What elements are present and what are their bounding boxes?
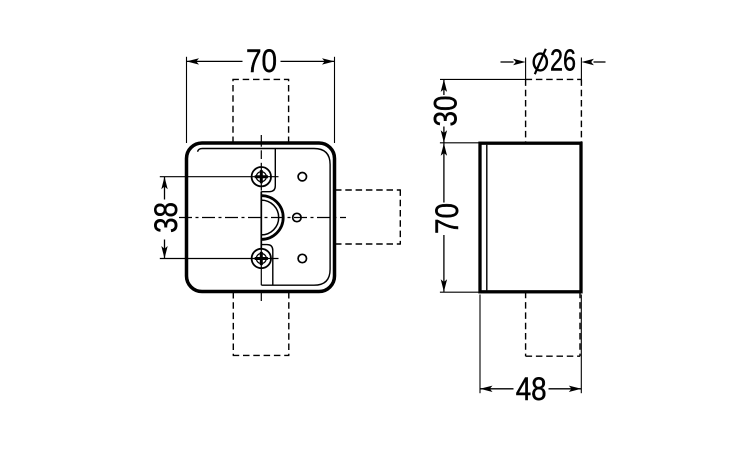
inner cover edge line (front view) <box>198 149 331 286</box>
dimension 30: top arrowhead <box>441 79 447 92</box>
dimension phi26: left leader and arrowhead <box>501 61 514 63</box>
dimension 70 side: top arrowhead <box>441 143 447 156</box>
small hole lower right <box>298 254 306 262</box>
dimension 48: extension lines <box>479 295 481 394</box>
dimension 70 side: extension lines <box>440 142 479 144</box>
dimension 38: bottom arrowhead <box>161 246 167 259</box>
hidden tube above (side view) <box>526 79 582 143</box>
dimension 30: bottom arrowhead <box>441 130 447 143</box>
D-notch outer arc <box>261 196 283 240</box>
screw upper: outer circle <box>252 167 271 186</box>
screw upper: phillips cross <box>255 170 268 183</box>
screw lower: vertical crosshair <box>260 245 262 273</box>
dimension 70 top: extension lines <box>186 57 188 143</box>
small hole upper right <box>298 173 306 181</box>
screw upper: vertical crosshair <box>260 163 262 191</box>
dimension 30: dimension line <box>443 79 445 95</box>
dimension phi26: extension lines <box>525 58 527 80</box>
dimension 38: dimension line <box>164 177 166 200</box>
hidden tube below (front view) <box>233 292 290 355</box>
screw lower: head circle <box>256 254 266 264</box>
screw lower: phillips cross <box>255 252 268 265</box>
dimension 48: left arrowhead <box>480 386 493 392</box>
dimension 70 top: left arrowhead <box>187 58 200 64</box>
side view body <box>480 143 581 292</box>
svg-text:70: 70 <box>429 203 465 234</box>
dimension 70 top: dimension line <box>187 60 243 62</box>
plate boss outline upper <box>261 149 275 192</box>
hidden tube below (side view) <box>526 292 580 356</box>
hidden tube above (front view) <box>232 79 289 143</box>
horizontal centerline (front view) <box>179 217 346 219</box>
side view inner edge line <box>486 145 488 291</box>
hidden tube right (front view) <box>335 189 400 244</box>
dimension 70 side: bottom arrowhead <box>441 279 447 292</box>
dimension 70 side: dimension line <box>443 143 445 202</box>
screw lower: outer circle <box>252 249 271 268</box>
svg-text:38: 38 <box>148 202 184 233</box>
dimension 48: right arrowhead <box>569 386 582 392</box>
dimension phi26: diameter symbol <box>534 54 547 71</box>
D-notch chord line <box>260 192 262 250</box>
dimension 38: extension line lower (through screw) <box>160 258 279 260</box>
dimension 70 top: right arrowhead <box>322 58 335 64</box>
svg-text:48: 48 <box>516 371 547 407</box>
dimension 38: top arrowhead <box>161 177 167 190</box>
dimension 30: extension line (tube top) <box>440 78 526 80</box>
outer body outline (front view) <box>187 143 335 292</box>
vertical centerline segments (front view) <box>260 135 262 301</box>
dimension 48: dimension line <box>480 388 514 390</box>
screw upper: head circle <box>256 172 266 182</box>
small hole middle right <box>293 213 301 221</box>
dimension phi26: right leader and arrowhead <box>594 61 606 63</box>
plate boss outline lower <box>261 245 273 286</box>
svg-text:30: 30 <box>428 96 464 127</box>
svg-text:26: 26 <box>550 44 576 78</box>
svg-text:70: 70 <box>246 43 277 79</box>
D-notch inner arc <box>261 200 278 235</box>
dimension 38: extension line upper (through screw) <box>160 176 279 178</box>
